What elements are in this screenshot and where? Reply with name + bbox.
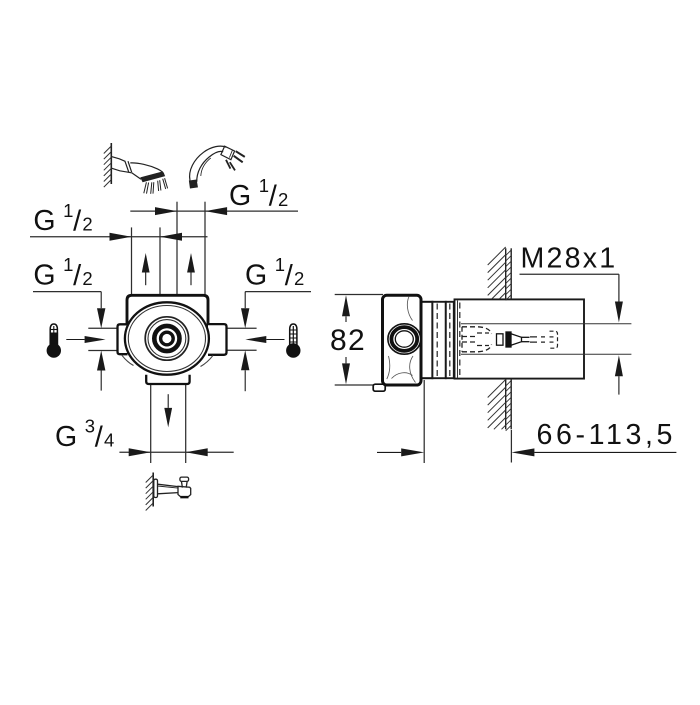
wall hatching for shower arm icon xyxy=(104,146,112,154)
flow arrow up left pipe xyxy=(142,253,150,273)
spindle end dashed cap xyxy=(550,331,558,348)
left port boss xyxy=(118,324,128,354)
left port opening lines xyxy=(88,327,117,329)
flow arrow up right pipe xyxy=(187,253,195,273)
svg-text:66-113,5: 66-113,5 xyxy=(537,419,677,451)
svg-text:1: 1 xyxy=(259,175,269,196)
cartridge recess ring outer xyxy=(145,317,188,360)
wall section upper lines xyxy=(505,248,507,299)
wall section upper hatching xyxy=(488,247,506,265)
82 dimension arrow up xyxy=(342,295,350,316)
bath outlet pipe bottom lines xyxy=(150,384,152,463)
flow arrow down bottom pipe xyxy=(164,408,172,428)
dimension arrow right at x177 xyxy=(155,207,177,215)
M28x1 arrow down to thread line xyxy=(615,302,623,323)
svg-text:G: G xyxy=(229,180,251,212)
body contour curve upper xyxy=(407,297,412,321)
66-113,5 dimension arrow right xyxy=(401,448,424,456)
66-113,5 extension line at valve rear xyxy=(423,380,425,463)
svg-text:M28x1: M28x1 xyxy=(521,243,618,275)
82 dimension extension line top xyxy=(335,294,383,296)
wall upper infill ticks xyxy=(506,250,512,256)
right port opening lines xyxy=(227,327,257,329)
svg-text:G: G xyxy=(55,421,77,453)
82 dimension extension line bottom xyxy=(335,384,383,386)
svg-text:2: 2 xyxy=(82,214,92,235)
cartridge dark annulus xyxy=(154,326,179,351)
right port boss xyxy=(208,324,227,355)
dimension line for G 3/4 xyxy=(119,451,233,453)
flow arrow into left port xyxy=(85,336,106,343)
wall section lower hatching xyxy=(488,380,506,398)
dimension arrow up to left port bottom xyxy=(97,351,105,371)
dimension arrow up to right port bottom xyxy=(241,350,249,370)
shower outlet pipe top-right wall lines xyxy=(176,202,178,295)
svg-text:/: / xyxy=(285,260,294,292)
82 dimension arrow down xyxy=(342,363,350,384)
svg-text:G: G xyxy=(245,259,267,291)
66-113,5 dimension arrow left xyxy=(511,448,534,456)
dimension arrow left at x185.7 xyxy=(186,448,208,456)
M28 dimension arrow up xyxy=(615,355,623,376)
svg-text:G: G xyxy=(33,205,55,237)
svg-text:/: / xyxy=(95,421,104,453)
dimension line for top-left G 1/2 xyxy=(30,236,208,238)
fixed shower head icon xyxy=(112,157,168,194)
wall line for spout icon xyxy=(152,473,154,507)
mounting lug bottom-left xyxy=(373,384,385,391)
bath spout icon xyxy=(154,477,191,497)
sleeve inner edge line xyxy=(457,301,459,379)
svg-text:1: 1 xyxy=(63,200,73,221)
svg-text:G: G xyxy=(33,259,55,291)
fillet curve left-bottom xyxy=(122,355,134,366)
flange dashed thread line 1 xyxy=(436,304,438,377)
side port thick ring xyxy=(391,327,417,351)
M28x1 leader line xyxy=(520,273,619,275)
valve front face inner ellipse xyxy=(128,306,205,372)
side port inner ellipse xyxy=(395,331,413,347)
svg-text:3: 3 xyxy=(85,416,95,437)
wall line for shower arm icon xyxy=(110,143,112,184)
flow arrow into right port xyxy=(245,336,266,343)
spindle solid parts xyxy=(497,332,530,347)
valve body side view outline xyxy=(383,295,422,385)
cold thermometer icon right xyxy=(286,324,300,358)
flange section A xyxy=(432,302,445,378)
dimension arrow left at x205 xyxy=(205,207,227,215)
thread diameter line top xyxy=(461,323,631,325)
svg-text:2: 2 xyxy=(278,189,288,210)
dimension arrow right at x150.7 xyxy=(129,448,151,456)
sleeve dashed line left xyxy=(459,303,461,378)
dimension arrow down to left port top xyxy=(97,308,105,328)
wall hatching for spout icon xyxy=(146,475,154,483)
cartridge recess ring inner thin xyxy=(148,320,186,358)
dimension line for top-right G 1/2 xyxy=(130,210,298,212)
dimension arrow right at x131.5 xyxy=(110,233,132,241)
svg-text:1: 1 xyxy=(275,254,285,275)
svg-text:2: 2 xyxy=(294,268,304,289)
valve body housing front view xyxy=(127,295,208,330)
wall section lower lines xyxy=(505,379,507,430)
svg-text:1: 1 xyxy=(63,254,73,275)
svg-text:82: 82 xyxy=(330,324,366,357)
svg-text:/: / xyxy=(269,181,278,213)
side port outer ellipse xyxy=(388,324,421,354)
leader line mid-right G 1/2 xyxy=(245,291,311,293)
svg-text:2: 2 xyxy=(82,268,92,289)
leader line mid-left G 1/2 xyxy=(33,291,101,293)
protective sleeve outline xyxy=(455,299,585,378)
svg-text:/: / xyxy=(73,206,82,238)
66-113,5 extension line at wall xyxy=(510,430,512,463)
bottom port boss xyxy=(146,375,189,384)
dimension arrow down to right port top xyxy=(241,308,249,328)
body shoulder step xyxy=(418,302,432,378)
body contour curve lower xyxy=(410,356,416,383)
spindle dark ring xyxy=(161,332,174,345)
hot inlet pipe top-left wall lines xyxy=(131,227,133,295)
flange section B xyxy=(446,302,454,378)
dimension arrow left at x160 xyxy=(160,233,182,241)
svg-text:/: / xyxy=(73,260,82,292)
spindle dashed centreline xyxy=(530,337,545,342)
thread diameter line bottom xyxy=(461,353,631,355)
svg-text:4: 4 xyxy=(104,429,114,450)
handheld shower icon xyxy=(189,146,245,188)
wall lower infill ticks xyxy=(506,381,512,387)
valve front face outer ellipse xyxy=(125,302,209,374)
hot thermometer icon left xyxy=(47,324,61,358)
internal cartridge dashed box xyxy=(462,327,492,352)
flange dashed thread line 2 xyxy=(449,304,451,377)
fillet curve right-bottom xyxy=(201,355,214,366)
